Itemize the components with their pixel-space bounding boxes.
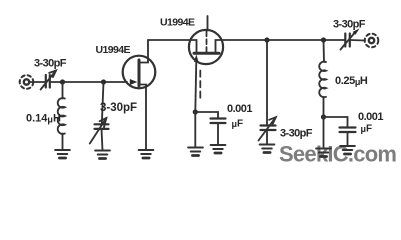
wire L2 bottom lead xyxy=(323,97,325,117)
wire L1 bottom lead xyxy=(62,134,64,151)
source lead xyxy=(139,85,146,151)
wire node F to C7 xyxy=(324,117,348,128)
inductor L2 0.25uH xyxy=(319,62,326,97)
svg-text:U1994E: U1994E xyxy=(96,44,131,56)
top stub lead xyxy=(207,16,209,31)
svg-text:U1994E: U1994E xyxy=(160,17,195,29)
output jack J2 xyxy=(365,34,379,48)
junction node A xyxy=(60,79,65,84)
shield dashed below xyxy=(199,71,201,101)
wire L1 top lead xyxy=(62,82,64,99)
svg-text:3-30pF: 3-30pF xyxy=(34,58,67,70)
ground G6 (C5) xyxy=(260,145,275,153)
JFET Q1 U1994E xyxy=(123,40,156,150)
gate lead down xyxy=(195,60,196,112)
inductor L1 0.14uH xyxy=(58,98,65,134)
svg-text:SeekIC.com: SeekIC.com xyxy=(279,142,396,167)
variable capacitor C5 3-30pF xyxy=(259,117,276,140)
junction node D xyxy=(264,37,269,42)
wire gate lead to G4 xyxy=(194,112,196,148)
variable capacitor C2 3-30pF xyxy=(90,118,109,144)
svg-text:0.001: 0.001 xyxy=(358,111,383,123)
variable capacitor C6 3-30pF (series output) xyxy=(341,28,360,49)
wire C4 bottom lead xyxy=(217,123,219,145)
svg-text:0.14μH: 0.14μH xyxy=(26,113,61,125)
ground G7 (C7) xyxy=(340,146,355,154)
gate arrow xyxy=(194,54,199,62)
right internal lead xyxy=(216,40,222,52)
left internal lead xyxy=(191,40,197,52)
wire C5 top lead xyxy=(266,40,268,126)
wire C5 bottom lead xyxy=(266,130,268,145)
wire L2 top lead xyxy=(323,40,326,62)
wire top rail left (Q1 drain to Q2) xyxy=(148,39,191,41)
channel bar xyxy=(194,52,219,55)
svg-text:3-30pF: 3-30pF xyxy=(100,102,137,114)
wire C1 to Q1 gate xyxy=(50,81,127,83)
svg-text:3-30pF: 3-30pF xyxy=(280,128,313,140)
ground G2 xyxy=(95,151,110,159)
wire C2 top lead xyxy=(102,82,104,125)
junction node F xyxy=(321,114,326,119)
variable capacitor C1 3-30pF xyxy=(41,71,56,90)
wire input to C1 xyxy=(30,81,46,83)
capacitor C7 0.001uF xyxy=(340,128,356,133)
capacitor C4 0.001uF xyxy=(211,119,226,124)
gate arrow xyxy=(130,79,138,85)
ground G8 (L2) xyxy=(316,149,331,157)
ground G5 (C4) xyxy=(211,145,226,153)
svg-text:0.001: 0.001 xyxy=(227,103,252,115)
ground G4 (Q2 gate) xyxy=(188,148,203,156)
internal shield dashed xyxy=(206,32,208,53)
wire top rail right xyxy=(222,39,345,41)
MOSFET Q2 U1994E xyxy=(189,16,223,112)
wire node C to C4 xyxy=(195,112,218,119)
wire C2 bottom lead xyxy=(102,129,103,151)
wire node F down to G8 xyxy=(323,117,325,149)
junction node C xyxy=(193,109,198,114)
svg-text:3-30pF: 3-30pF xyxy=(333,19,366,31)
input jack J1 xyxy=(20,75,34,89)
svg-text:μF: μF xyxy=(361,124,373,135)
junction node B xyxy=(101,79,106,84)
wire C6 to J2 xyxy=(350,39,365,42)
svg-text:μF: μF xyxy=(232,119,244,130)
drain lead xyxy=(139,40,148,63)
ground G1 xyxy=(55,150,70,158)
svg-text:0.25μH: 0.25μH xyxy=(335,75,368,87)
wire C7 bottom lead xyxy=(347,132,349,146)
channel bar xyxy=(138,60,141,86)
ground G3 (Q1 source) xyxy=(139,150,154,158)
junction node E xyxy=(321,37,326,42)
